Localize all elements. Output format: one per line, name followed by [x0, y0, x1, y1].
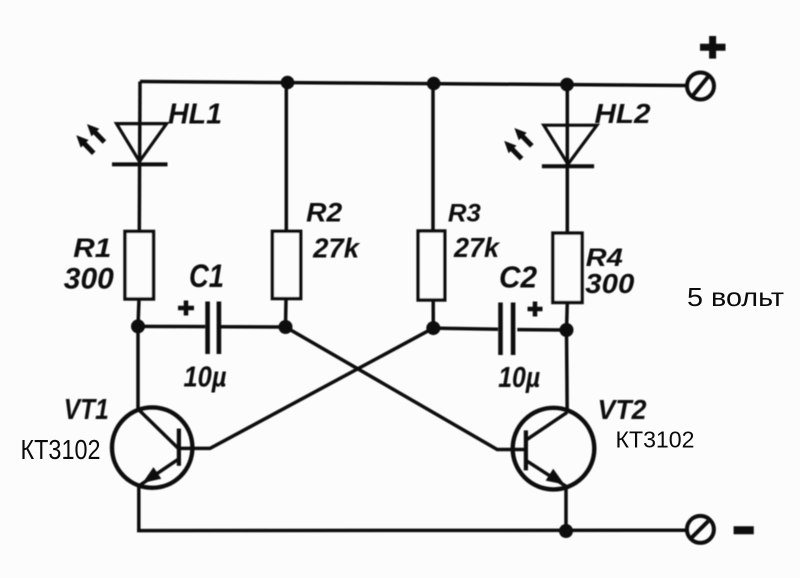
svg-text:R2: R2 — [306, 198, 342, 228]
svg-text:КТ3102: КТ3102 — [21, 434, 101, 465]
svg-text:VT1: VT1 — [64, 394, 109, 426]
svg-text:5 вольт: 5 вольт — [687, 282, 784, 312]
svg-text:КТ3102: КТ3102 — [616, 427, 695, 453]
svg-text:300: 300 — [64, 263, 114, 296]
svg-text:10µ: 10µ — [184, 362, 227, 394]
svg-text:HL2: HL2 — [595, 98, 651, 129]
svg-text:VT2: VT2 — [598, 394, 647, 425]
svg-text:300: 300 — [585, 268, 634, 299]
svg-text:10µ: 10µ — [498, 362, 540, 394]
svg-text:C1: C1 — [189, 258, 224, 294]
svg-text:27k: 27k — [453, 232, 500, 263]
svg-text:27k: 27k — [312, 232, 360, 263]
svg-text:R1: R1 — [73, 233, 111, 263]
svg-text:HL1: HL1 — [168, 99, 222, 131]
svg-text:C2: C2 — [499, 260, 537, 295]
svg-text:R3: R3 — [448, 200, 481, 228]
